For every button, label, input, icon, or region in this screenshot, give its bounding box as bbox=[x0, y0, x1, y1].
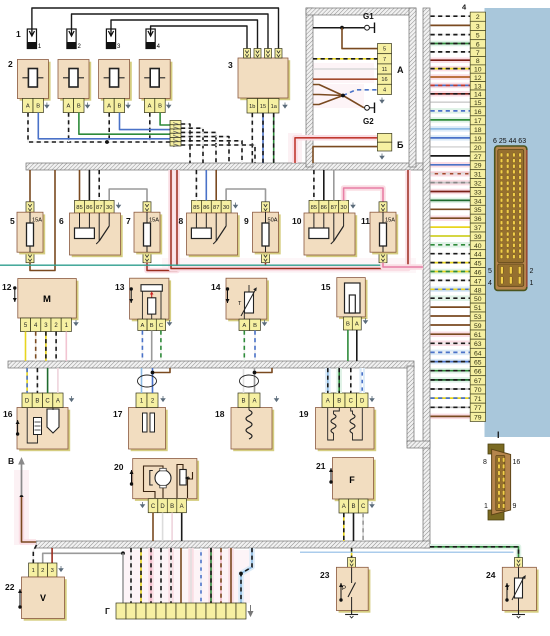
svg-text:86: 86 bbox=[203, 205, 209, 211]
svg-text:87: 87 bbox=[213, 205, 219, 211]
wire 18 pinB bbox=[243, 368, 245, 393]
wire relay8 86 feed bbox=[205, 170, 207, 200]
svg-text:F: F bbox=[349, 475, 355, 485]
wire relay10 85 feed bbox=[313, 170, 315, 200]
svg-text:34: 34 bbox=[474, 198, 482, 205]
wire 21 pinC bbox=[362, 513, 364, 541]
ground symbol 15 shield bbox=[364, 318, 368, 323]
svg-text:A: A bbox=[26, 104, 30, 110]
node B junction bbox=[20, 495, 24, 499]
wire ECU wire 36 bbox=[431, 215, 471, 221]
wire relay10 86 feed bbox=[323, 170, 325, 200]
svg-text:48: 48 bbox=[474, 287, 482, 294]
wire ECU wire 46 bbox=[431, 269, 471, 275]
svg-text:2: 2 bbox=[530, 268, 534, 275]
wire trunk RT right vertical bbox=[423, 8, 430, 548]
svg-text:B: B bbox=[241, 398, 245, 404]
svg-text:59: 59 bbox=[474, 323, 482, 330]
svg-text:35: 35 bbox=[474, 207, 482, 214]
wire junction out 2 bbox=[181, 128, 203, 163]
pin fuse 7 top pin bbox=[143, 202, 151, 212]
svg-text:6 25 44 63: 6 25 44 63 bbox=[493, 138, 526, 145]
wire ECU wire 48 bbox=[431, 287, 471, 293]
wire strip feed 9 blue-white bbox=[200, 548, 202, 603]
ignition coil 2.3 bbox=[99, 60, 132, 101]
wire 16 pinA bbox=[57, 368, 59, 393]
wire fuse9 out bbox=[265, 263, 267, 269]
ECU panel background bbox=[485, 8, 550, 437]
svg-text:14: 14 bbox=[474, 92, 482, 99]
wire 19 pinC bbox=[350, 368, 352, 393]
svg-text:3: 3 bbox=[476, 23, 480, 30]
wire 12 pin4 bbox=[35, 332, 37, 362]
wire 17 pin2 bbox=[152, 368, 154, 393]
wire strip feed 4 rose-black bbox=[148, 548, 154, 603]
wire 12 pin2 bbox=[55, 332, 57, 362]
spark plug 2 bbox=[67, 29, 82, 50]
pin 23 pin bbox=[348, 558, 356, 568]
wire 15 pinB bbox=[347, 330, 349, 361]
wire ECU wire 5 bbox=[431, 32, 471, 38]
wire ECU wire 12 bbox=[431, 74, 471, 80]
relay 10 pins bbox=[309, 200, 349, 213]
svg-text:18: 18 bbox=[215, 409, 225, 419]
svg-text:D: D bbox=[360, 398, 365, 404]
svg-text:B: B bbox=[346, 322, 350, 328]
wire 13 pinC bbox=[160, 331, 162, 362]
wire strip feed 12 brown2 bbox=[228, 548, 234, 603]
svg-text:85: 85 bbox=[76, 205, 82, 211]
svg-text:B: B bbox=[36, 104, 40, 110]
wire junction out 6 bbox=[181, 145, 255, 163]
svg-text:13: 13 bbox=[115, 282, 125, 292]
wire strip feed 3 yellow-black bbox=[140, 548, 142, 603]
wire 21 pinA bbox=[343, 513, 345, 541]
ground symbol 16 shield bbox=[70, 396, 74, 401]
wire 13 pinA bbox=[141, 331, 143, 362]
pin fuse 5 top pin bbox=[26, 202, 34, 212]
svg-text:B: B bbox=[170, 504, 174, 510]
wire ECU wire 7 bbox=[431, 49, 471, 55]
svg-text:A: A bbox=[252, 398, 256, 404]
svg-text:31: 31 bbox=[474, 172, 482, 179]
module 3 low pins bbox=[247, 99, 279, 114]
svg-text:11: 11 bbox=[361, 216, 370, 226]
wire relay6 86 feed bbox=[88, 170, 90, 200]
connector I bbox=[488, 444, 511, 520]
svg-text:7: 7 bbox=[126, 216, 131, 226]
svg-text:D: D bbox=[25, 398, 30, 404]
svg-text:47: 47 bbox=[474, 278, 482, 285]
wire A X-brown-2 bbox=[313, 95, 343, 96]
speed sensor 17 bbox=[129, 408, 168, 452]
wire ECU wire 31 bbox=[431, 171, 471, 177]
ground symbol Б shield bbox=[380, 154, 384, 159]
wire A cell11 white bbox=[313, 68, 378, 70]
wire strip feed 13 lightblue bbox=[241, 548, 252, 603]
wire A X-brown-3 bbox=[313, 96, 343, 105]
wire ECU wire 6 bbox=[431, 41, 471, 47]
svg-text:22: 22 bbox=[5, 582, 15, 592]
wire ECU wire 50 bbox=[431, 295, 471, 301]
pin fuse 11 top pin bbox=[379, 202, 387, 212]
svg-text:G1: G1 bbox=[363, 12, 374, 21]
22 pins bbox=[29, 563, 57, 577]
wire ECU wire 67 bbox=[431, 377, 471, 383]
ground symbol A shield bbox=[380, 98, 384, 103]
21 pins bbox=[339, 499, 368, 513]
svg-text:50A: 50A bbox=[268, 218, 278, 224]
wire A X-brown-1 bbox=[313, 85, 343, 96]
ground symbol 12 shield bbox=[74, 320, 78, 325]
wire ECU wire 29 bbox=[431, 162, 471, 168]
svg-text:5: 5 bbox=[10, 216, 15, 226]
svg-text:6: 6 bbox=[59, 216, 64, 226]
wire strip feed 10 green-black bbox=[208, 548, 214, 603]
svg-text:A: A bbox=[242, 323, 246, 329]
node B arrow bbox=[18, 457, 25, 497]
wire fuse5 feed bbox=[29, 170, 31, 202]
pin 24 pin bbox=[515, 558, 523, 568]
wire module pin 1b bbox=[251, 113, 253, 163]
wire module pin 1a bbox=[273, 113, 275, 163]
wire ECU wire 10 bbox=[431, 66, 471, 72]
svg-text:14: 14 bbox=[211, 282, 221, 292]
wire strip feed 6 black-white bbox=[168, 548, 174, 603]
svg-text:Г: Г bbox=[105, 606, 110, 616]
wire 17 pin1 bbox=[141, 368, 143, 393]
svg-text:32: 32 bbox=[474, 181, 482, 188]
svg-text:15A: 15A bbox=[149, 218, 159, 224]
svg-text:12: 12 bbox=[474, 75, 482, 82]
svg-text:65: 65 bbox=[474, 360, 482, 367]
relay 8 body bbox=[187, 213, 240, 257]
ground symbol 13 shield bbox=[168, 320, 172, 325]
wire ECU wire 45 bbox=[431, 260, 471, 266]
svg-text:16: 16 bbox=[474, 109, 482, 116]
wire ECU wire 32 bbox=[431, 180, 471, 186]
wire 14 pinB bbox=[254, 331, 256, 362]
orientation mark 13 mark bbox=[129, 287, 133, 303]
fuse 5 body bbox=[17, 212, 45, 254]
wire trunk A-box right bbox=[409, 8, 416, 167]
17 pins bbox=[136, 393, 158, 408]
wire coil 4 A drop bbox=[149, 113, 151, 142]
wire ECU wire 51 bbox=[431, 304, 471, 310]
air temp sensor 14 bbox=[226, 278, 269, 321]
svg-text:A: A bbox=[107, 104, 111, 110]
15 pins bbox=[343, 317, 361, 330]
wire coil A bus bbox=[28, 113, 170, 142]
pin fuse 11 bottom pin bbox=[379, 252, 387, 262]
orientation mark 20 mark bbox=[130, 470, 134, 486]
svg-text:79: 79 bbox=[474, 414, 482, 421]
wire ECU wire 53 bbox=[431, 313, 471, 319]
svg-text:1: 1 bbox=[484, 503, 488, 510]
ground symbol 21 shield bbox=[370, 502, 374, 507]
ground symbol coil 2.4 shield bbox=[167, 103, 171, 108]
fuel pump 16 bbox=[17, 408, 70, 452]
wire relay8 87 feed bbox=[215, 170, 217, 200]
svg-text:63: 63 bbox=[474, 341, 482, 348]
svg-text:C: C bbox=[349, 398, 354, 404]
svg-text:16: 16 bbox=[513, 459, 521, 466]
coil 2.4 pins bbox=[144, 98, 165, 112]
ECU connector 4 pin strip bbox=[470, 12, 485, 421]
svg-text:30: 30 bbox=[223, 205, 229, 211]
wire HT lead 2 bbox=[72, 14, 269, 49]
13 pins bbox=[138, 319, 166, 330]
svg-text:21: 21 bbox=[316, 461, 326, 471]
svg-text:37: 37 bbox=[474, 225, 482, 232]
ignition coil 2.4 bbox=[139, 60, 172, 101]
crank sensor 18 bbox=[231, 408, 274, 452]
svg-text:C: C bbox=[151, 504, 156, 510]
ground symbol 19 shield bbox=[370, 396, 374, 401]
wire fuse11 out bbox=[383, 263, 423, 267]
screen ring 17 bbox=[138, 375, 157, 387]
wash B corridor bbox=[14, 470, 29, 545]
wire G1 lead bbox=[313, 27, 364, 29]
svg-text:А: А bbox=[397, 65, 404, 75]
svg-text:3: 3 bbox=[51, 568, 54, 574]
wire strip feed 1 gray bbox=[122, 553, 124, 603]
wire fuse7 out bbox=[147, 170, 177, 271]
svg-text:9: 9 bbox=[244, 216, 249, 226]
wire junction out 1 bbox=[181, 124, 190, 163]
svg-text:70: 70 bbox=[474, 387, 482, 394]
svg-text:3: 3 bbox=[228, 60, 233, 70]
wire A cell4 blue-white bbox=[343, 90, 378, 96]
pressure switch 23 bbox=[336, 567, 370, 612]
wire trunk T1 horizontal bbox=[26, 163, 430, 170]
wire fuse5 out bbox=[30, 170, 55, 271]
wire teal rail bbox=[0, 264, 423, 266]
node 18 junction bbox=[253, 371, 257, 375]
wire A cell16 red-brown bbox=[313, 78, 378, 80]
wire coil 3 A drop bbox=[108, 113, 110, 142]
svg-text:10: 10 bbox=[474, 67, 482, 74]
svg-text:9: 9 bbox=[513, 503, 517, 510]
svg-text:1: 1 bbox=[32, 568, 35, 574]
wire B brown drop bbox=[22, 497, 37, 542]
wire G2 lead bbox=[343, 96, 364, 108]
svg-text:46: 46 bbox=[474, 270, 482, 277]
svg-text:86: 86 bbox=[86, 205, 92, 211]
wire coil 2 B bbox=[79, 113, 170, 135]
svg-text:2: 2 bbox=[476, 14, 480, 21]
wire ECU wire 16 bbox=[431, 108, 471, 114]
connector A bbox=[378, 44, 392, 95]
19 pins bbox=[322, 393, 368, 408]
spark plug 3 bbox=[106, 29, 121, 50]
ground symbol coil 2.2 shield bbox=[86, 103, 90, 108]
relay 6 body bbox=[70, 213, 123, 257]
orientation mark 14 mark bbox=[226, 287, 230, 303]
wire ECU wire 27 bbox=[431, 153, 471, 159]
svg-text:G2: G2 bbox=[363, 117, 374, 126]
svg-text:6: 6 bbox=[476, 41, 480, 48]
svg-text:66: 66 bbox=[474, 369, 482, 376]
wire ECU wire 18 bbox=[431, 126, 471, 132]
pin module 3 HT pin 2 bbox=[254, 49, 261, 59]
svg-text:A: A bbox=[326, 398, 330, 404]
wire trunk A-box top bbox=[306, 8, 416, 15]
svg-text:B: B bbox=[351, 504, 355, 510]
wire 17 brown joiner bbox=[153, 368, 171, 373]
wash A-box X zone bbox=[312, 84, 364, 108]
wire 13 pinB bbox=[151, 331, 153, 362]
svg-text:29: 29 bbox=[474, 163, 482, 170]
wire 16 pinB bbox=[36, 368, 38, 393]
svg-text:53: 53 bbox=[474, 314, 482, 321]
14 pins bbox=[239, 319, 260, 330]
wire B blk red feed bbox=[295, 138, 377, 163]
svg-text:30: 30 bbox=[106, 205, 112, 211]
arrow after Г bbox=[248, 605, 252, 616]
wire ECU wire 64 bbox=[431, 350, 471, 356]
ground symbol coil 2.3 shield bbox=[126, 103, 130, 108]
wire ECU wire 70 bbox=[431, 386, 471, 392]
16 pins bbox=[22, 393, 63, 408]
svg-text:17: 17 bbox=[474, 118, 482, 125]
wire B blk brown feed bbox=[313, 147, 377, 163]
wire trunk V2 vertical bbox=[407, 366, 414, 444]
wire ECU wire 33 bbox=[431, 189, 471, 195]
node 17 junction bbox=[151, 371, 155, 375]
svg-text:1b: 1b bbox=[249, 104, 255, 110]
temp sensor 24 bbox=[502, 567, 538, 612]
fuse 7 body bbox=[134, 212, 162, 254]
svg-text:Б: Б bbox=[397, 140, 404, 150]
wire ECU wire 20 bbox=[431, 144, 471, 150]
connector Б bbox=[377, 133, 391, 151]
wire ECU wire 47 bbox=[431, 278, 471, 284]
wire ECU wire 19 bbox=[431, 135, 471, 141]
wire 12 pin1 bbox=[65, 332, 67, 362]
svg-text:71: 71 bbox=[474, 396, 482, 403]
wire strip feed 8 white bbox=[188, 548, 194, 603]
wire relay6 30 to fuse7 bbox=[109, 189, 147, 202]
pin module 3 HT pin 4 bbox=[275, 49, 282, 59]
wire strip feed 2 white-black bbox=[130, 548, 132, 603]
node A-bus junction bbox=[105, 140, 109, 144]
svg-text:50: 50 bbox=[474, 296, 482, 303]
ground symbol 17 shield bbox=[161, 396, 165, 401]
pin fuse 9 top pin bbox=[262, 202, 270, 212]
ground symbol 14 shield bbox=[263, 320, 267, 325]
ground symbol relay 10 shield bbox=[351, 203, 355, 208]
svg-text:1a: 1a bbox=[271, 104, 278, 110]
svg-text:B: B bbox=[158, 104, 162, 110]
wire 20 pinA bbox=[181, 513, 183, 541]
svg-text:5: 5 bbox=[488, 268, 492, 275]
wire ECU wire 34 bbox=[431, 198, 471, 204]
svg-text:C: C bbox=[361, 504, 366, 510]
wire ECU wire 77 bbox=[431, 405, 471, 411]
terminal G1 bbox=[365, 23, 375, 34]
ground symbol relay 8 shield bbox=[234, 203, 238, 208]
svg-text:85: 85 bbox=[311, 205, 317, 211]
wire 16 pinD bbox=[26, 368, 28, 393]
wire relay6 87 feed bbox=[98, 170, 100, 200]
svg-text:33: 33 bbox=[474, 189, 482, 196]
svg-text:8: 8 bbox=[476, 58, 480, 65]
svg-text:4: 4 bbox=[488, 280, 492, 287]
svg-text:24: 24 bbox=[486, 570, 496, 580]
svg-text:10: 10 bbox=[292, 216, 302, 226]
wire 12 pin3 bbox=[45, 332, 47, 362]
svg-text:51: 51 bbox=[474, 305, 482, 312]
svg-text:В: В bbox=[8, 456, 14, 466]
ignition coil 2.1 bbox=[17, 60, 50, 101]
svg-text:11: 11 bbox=[382, 67, 388, 73]
crankshaft sensor 15 bbox=[337, 278, 368, 319]
wire module pin 15 bbox=[262, 113, 264, 163]
svg-text:15A: 15A bbox=[385, 218, 395, 224]
svg-text:16: 16 bbox=[3, 409, 13, 419]
svg-text:A: A bbox=[140, 323, 144, 329]
node strip13 junction bbox=[239, 572, 243, 576]
svg-text:87: 87 bbox=[331, 205, 337, 211]
wire 22 pin1 feed bbox=[33, 545, 36, 563]
svg-text:7: 7 bbox=[476, 50, 480, 57]
svg-text:M: M bbox=[43, 294, 51, 305]
wire coil 2 A drop bbox=[68, 113, 70, 142]
wire 12 pin5 bbox=[25, 332, 27, 362]
wire 19 pinA bbox=[325, 368, 331, 393]
idle air valve 20 bbox=[133, 459, 199, 501]
wire HT lead 3 bbox=[111, 20, 258, 49]
svg-text:B: B bbox=[337, 398, 341, 404]
svg-text:15: 15 bbox=[474, 100, 482, 107]
wire ECU wire 79 bbox=[431, 414, 471, 420]
wire ECU wire 3 bbox=[431, 23, 471, 29]
svg-text:40: 40 bbox=[474, 243, 482, 250]
12 pins bbox=[20, 318, 71, 332]
fuse 11 body bbox=[370, 212, 398, 254]
svg-text:I: I bbox=[497, 430, 500, 440]
svg-text:19: 19 bbox=[474, 136, 482, 143]
svg-text:1: 1 bbox=[530, 280, 534, 287]
svg-text:77: 77 bbox=[474, 405, 482, 412]
orientation mark 12 mark bbox=[13, 286, 17, 302]
svg-text:A: A bbox=[56, 398, 60, 404]
igniter 19 bbox=[316, 408, 377, 452]
svg-text:7: 7 bbox=[383, 57, 386, 63]
wire ECU wire 17 bbox=[431, 117, 471, 123]
svg-text:A: A bbox=[66, 104, 70, 110]
wire ECU wire 35 bbox=[431, 207, 471, 213]
wire junction out 4 bbox=[181, 137, 229, 163]
wash A-box interior bbox=[312, 63, 374, 83]
ground symbol 18 shield bbox=[275, 396, 279, 401]
orientation mark 22 mark bbox=[18, 589, 22, 609]
wire ECU wire 65 bbox=[431, 359, 471, 365]
svg-text:2: 2 bbox=[41, 568, 44, 574]
wire 19 pinD bbox=[359, 368, 365, 393]
ground symbol module 3 shield bbox=[283, 103, 287, 108]
orientation mark 16 mark bbox=[16, 420, 20, 436]
terminal G2 bbox=[365, 103, 375, 114]
svg-text:85: 85 bbox=[193, 205, 199, 211]
svg-text:12: 12 bbox=[2, 282, 12, 292]
wire strip feed 7 brown bbox=[180, 548, 182, 603]
ground symbol 22 shield bbox=[59, 566, 63, 571]
wire HT lead 4 bbox=[151, 26, 247, 49]
screen ring 18 bbox=[240, 375, 259, 387]
wire ECU wire 66 bbox=[431, 368, 471, 374]
